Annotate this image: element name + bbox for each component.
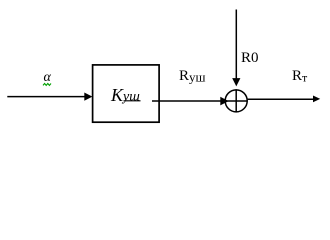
wire output Rt	[248, 98, 314, 100]
label Rt	[292, 69, 307, 84]
underline under ush subscript	[124, 100, 141, 102]
arrowhead into summing junction top	[232, 78, 240, 86]
wire block output Rush	[152, 100, 221, 102]
block Kush rectangle	[93, 65, 160, 122]
arrowhead into summing junction left	[220, 97, 228, 106]
label alpha	[44, 71, 51, 85]
arrowhead into block K	[84, 93, 92, 101]
summing junction cross horizontal	[225, 100, 248, 102]
label K ush inside block	[111, 86, 140, 105]
label R ush	[179, 69, 206, 84]
green squiggle under alpha	[43, 84, 51, 86]
arrowhead output Rt	[313, 96, 320, 103]
label R0	[241, 51, 259, 66]
summing junction circle	[225, 90, 247, 112]
summing junction cross vertical	[235, 89, 237, 112]
wire R0 vertical	[235, 10, 237, 80]
wire input alpha	[7, 96, 85, 98]
